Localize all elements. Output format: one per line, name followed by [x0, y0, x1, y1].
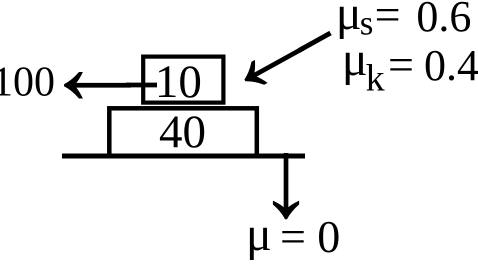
svg-text:=: =	[375, 0, 401, 40]
block 10 (upper block)	[143, 57, 223, 103]
svg-text:0.6: 0.6	[416, 0, 471, 41]
svg-text:0.4: 0.4	[424, 41, 478, 90]
ground surface line	[62, 154, 305, 159]
friction callout arrow shaft extension	[299, 33, 331, 51]
svg-text:μ: μ	[342, 33, 368, 86]
force arrow 100 shaft extension	[126, 83, 157, 88]
svg-text:0: 0	[317, 211, 340, 260]
svg-text:=: =	[388, 39, 414, 90]
svg-text:=: =	[280, 211, 306, 260]
svg-text:μ: μ	[246, 208, 272, 260]
svg-text:k: k	[366, 58, 385, 100]
block 40 (lower block)	[109, 108, 256, 156]
svg-text:10: 10	[155, 56, 202, 108]
svg-text:100: 100	[0, 60, 55, 106]
svg-text:40: 40	[159, 106, 206, 158]
svg-text:←: ←	[41, 4, 154, 129]
